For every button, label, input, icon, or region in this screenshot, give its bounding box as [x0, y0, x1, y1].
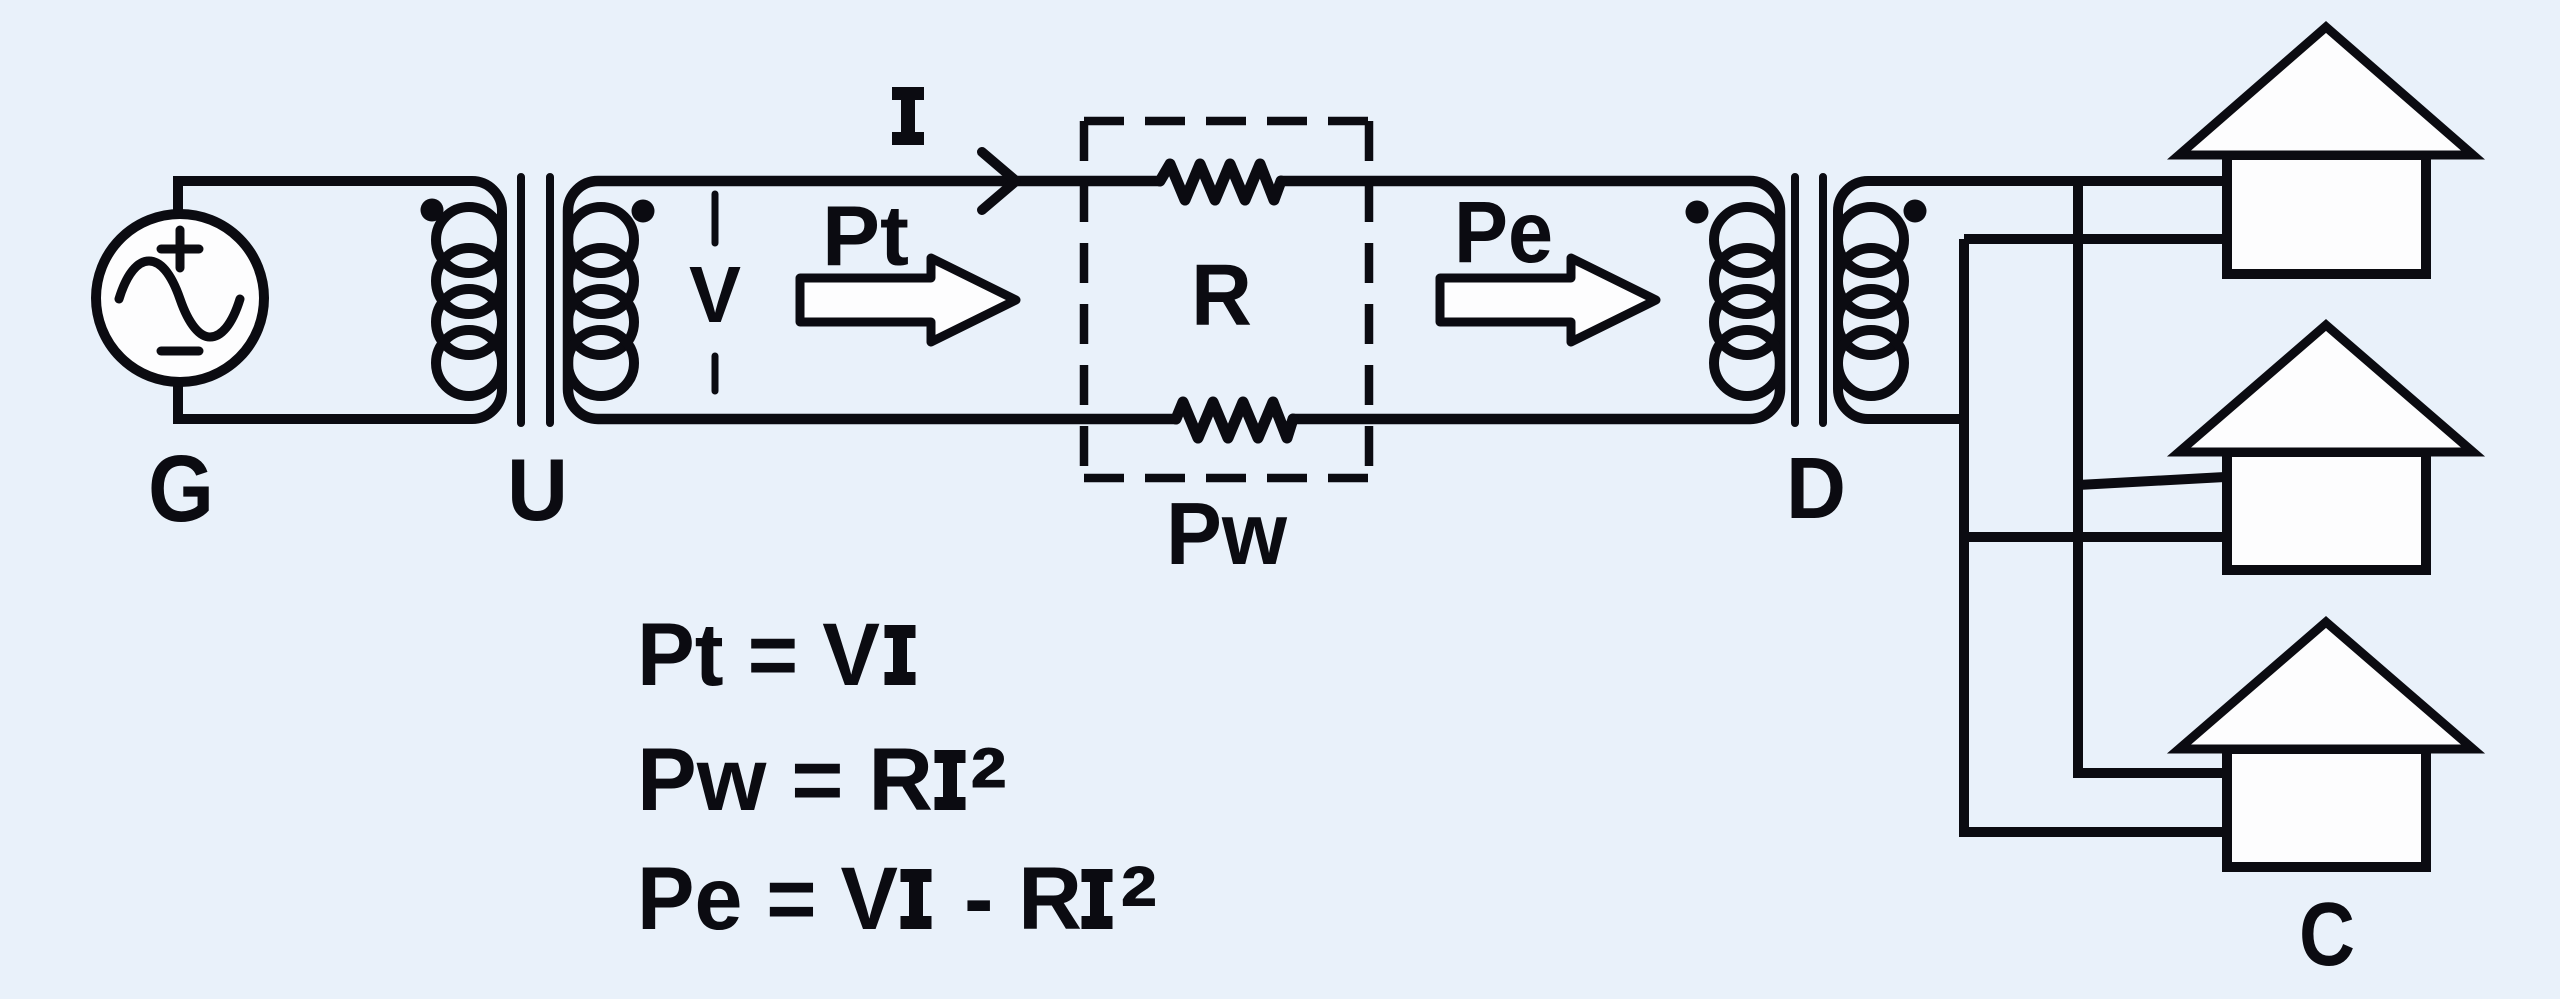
svg-text:U: U: [507, 440, 568, 539]
svg-text:Pt = V: Pt = V: [637, 604, 880, 704]
svg-text:Pw: Pw: [1166, 484, 1288, 583]
svg-text:Pe = V: Pe = V: [637, 848, 898, 948]
svg-text:C: C: [2299, 885, 2355, 985]
svg-text:²: ²: [1120, 843, 1157, 968]
svg-text:R: R: [1191, 247, 1252, 344]
svg-text:Pt: Pt: [822, 189, 909, 284]
svg-text:D: D: [1786, 440, 1846, 537]
svg-text:V: V: [689, 250, 741, 339]
svg-text:- R: - R: [964, 848, 1082, 948]
svg-text:²: ²: [970, 725, 1007, 850]
svg-text:Pe: Pe: [1454, 184, 1553, 281]
svg-text:G: G: [148, 436, 214, 542]
svg-text:Pw = R: Pw = R: [637, 729, 933, 829]
